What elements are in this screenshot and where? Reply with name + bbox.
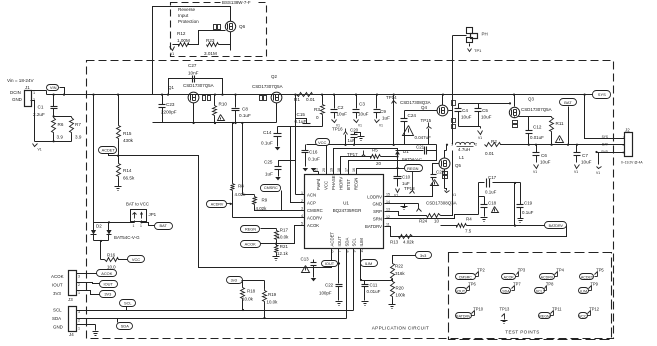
svg-text:ILIM: ILIM xyxy=(580,289,587,293)
svg-text:R7: R7 xyxy=(75,122,81,127)
svg-text:10uF: 10uF xyxy=(481,115,492,120)
svg-text:1: 1 xyxy=(78,291,80,295)
svg-text:ILIM: ILIM xyxy=(359,238,364,247)
svg-text:CMSRC: CMSRC xyxy=(307,208,323,213)
svg-text:0.01uF: 0.01uF xyxy=(530,135,544,140)
svg-text:10.0: 10.0 xyxy=(107,265,116,270)
svg-text:R4: R4 xyxy=(466,217,472,222)
svg-text:3: 3 xyxy=(78,310,80,314)
svg-text:TP3: TP3 xyxy=(518,268,526,273)
svg-text:C27: C27 xyxy=(188,63,197,68)
svg-text:SDA: SDA xyxy=(52,316,61,321)
svg-text:CSD17307Q5A: CSD17307Q5A xyxy=(183,83,214,88)
svg-text:V1: V1 xyxy=(478,136,482,140)
svg-text:10.0k: 10.0k xyxy=(278,235,290,240)
svg-text:0: 0 xyxy=(316,115,319,120)
svg-text:10nF: 10nF xyxy=(188,71,199,76)
svg-text:V1: V1 xyxy=(38,148,42,152)
svg-text:20: 20 xyxy=(376,161,381,166)
svg-text:Q2: Q2 xyxy=(271,74,277,79)
svg-text:TP9: TP9 xyxy=(590,282,598,287)
svg-text:CSD17307Q5A: CSD17307Q5A xyxy=(252,84,283,89)
svg-text:R6: R6 xyxy=(58,122,64,127)
svg-text:ACDRV: ACDRV xyxy=(541,276,554,280)
svg-text:3v3: 3v3 xyxy=(420,253,426,258)
svg-text:BAT: BAT xyxy=(564,100,572,105)
svg-text:2: 2 xyxy=(475,143,477,147)
svg-text:SYS: SYS xyxy=(602,135,608,139)
svg-text:R15: R15 xyxy=(123,131,132,136)
svg-text:GND: GND xyxy=(372,202,382,207)
svg-text:C17: C17 xyxy=(488,175,497,180)
svg-text:10uF: 10uF xyxy=(461,115,472,120)
svg-text:Q6: Q6 xyxy=(239,24,246,29)
svg-text:V1: V1 xyxy=(379,124,383,128)
svg-text:V1: V1 xyxy=(170,52,174,56)
svg-text:6: 6 xyxy=(330,251,334,253)
svg-text:0.1uF: 0.1uF xyxy=(485,190,497,195)
svg-text:R20: R20 xyxy=(396,286,405,291)
svg-text:0.1uF: 0.1uF xyxy=(239,113,251,118)
svg-text:R2: R2 xyxy=(491,139,497,144)
svg-text:C19: C19 xyxy=(524,201,533,206)
svg-text:100pF: 100pF xyxy=(319,291,332,296)
svg-text:Q1: Q1 xyxy=(168,85,174,90)
svg-text:0.01: 0.01 xyxy=(306,97,315,102)
svg-text:C14: C14 xyxy=(263,130,272,135)
svg-text:ILIM: ILIM xyxy=(365,261,373,266)
svg-text:4.02k: 4.02k xyxy=(256,206,268,211)
svg-text:TP10: TP10 xyxy=(473,307,484,312)
svg-text:VCC: VCC xyxy=(318,140,327,145)
svg-text:REGN: REGN xyxy=(245,228,256,232)
svg-text:U1: U1 xyxy=(343,201,349,206)
svg-text:12.1k: 12.1k xyxy=(277,251,289,256)
svg-text:TP12: TP12 xyxy=(589,307,600,312)
svg-text:3: 3 xyxy=(301,207,303,211)
svg-text:SDA: SDA xyxy=(502,289,510,293)
svg-text:ACP: ACP xyxy=(307,201,316,206)
svg-text:PH: PH xyxy=(482,32,488,37)
svg-text:20: 20 xyxy=(322,168,326,172)
svg-text:ACOK: ACOK xyxy=(101,271,112,276)
svg-text:C25: C25 xyxy=(264,160,273,165)
svg-text:R13: R13 xyxy=(390,240,399,245)
svg-text:IOUT: IOUT xyxy=(104,281,114,286)
svg-text:R18: R18 xyxy=(247,289,256,294)
svg-text:TP2: TP2 xyxy=(477,268,485,273)
svg-text:3.9: 3.9 xyxy=(75,135,82,140)
svg-text:10: 10 xyxy=(434,219,439,224)
svg-text:ACDET: ACDET xyxy=(581,276,594,280)
svg-text:TEST POINTS: TEST POINTS xyxy=(505,330,539,335)
svg-text:2.2uF: 2.2uF xyxy=(33,112,45,117)
svg-text:BAT: BAT xyxy=(602,143,608,147)
svg-text:1uF: 1uF xyxy=(265,172,273,177)
svg-text:D2: D2 xyxy=(96,224,102,229)
svg-text:1: 1 xyxy=(133,224,135,228)
svg-text:IOUT: IOUT xyxy=(337,236,342,247)
svg-text:C9: C9 xyxy=(380,109,386,114)
svg-text:0.01uF: 0.01uF xyxy=(367,289,381,294)
svg-text:BAT to VCC: BAT to VCC xyxy=(126,202,149,207)
svg-text:8: 8 xyxy=(345,251,349,253)
svg-text:V1: V1 xyxy=(596,171,600,175)
svg-text:VCC: VCC xyxy=(579,314,587,318)
svg-text:BATDRV: BATDRV xyxy=(456,314,471,318)
svg-text:TP17: TP17 xyxy=(347,152,358,157)
svg-text:TP15: TP15 xyxy=(421,118,432,123)
svg-text:4.7uH: 4.7uH xyxy=(458,147,470,152)
svg-text:BAT54-V-C: BAT54-V-C xyxy=(402,157,422,162)
svg-text:Vin = 18-24V: Vin = 18-24V xyxy=(7,78,35,83)
svg-text:10.0k: 10.0k xyxy=(242,297,254,302)
svg-text:0~19.2V @ 4A: 0~19.2V @ 4A xyxy=(621,161,643,165)
svg-text:0.1uF: 0.1uF xyxy=(261,141,273,146)
svg-text:SRN: SRN xyxy=(373,217,382,222)
svg-text:SCL: SCL xyxy=(536,289,543,293)
svg-text:10uF: 10uF xyxy=(540,160,551,165)
svg-text:C3: C3 xyxy=(359,102,365,107)
svg-text:ACOK: ACOK xyxy=(504,276,515,280)
svg-text:10uF: 10uF xyxy=(581,160,592,165)
svg-text:10uF: 10uF xyxy=(337,112,348,117)
svg-text:7.5: 7.5 xyxy=(465,229,472,234)
svg-text:66.5k: 66.5k xyxy=(123,176,135,181)
svg-text:10uF: 10uF xyxy=(358,112,369,117)
svg-text:R24: R24 xyxy=(419,219,428,224)
svg-text:J1: J1 xyxy=(25,85,30,90)
svg-text:ACN: ACN xyxy=(307,192,316,197)
svg-text:0.1uF: 0.1uF xyxy=(522,210,534,215)
svg-text:Input: Input xyxy=(178,13,189,18)
svg-text:C11: C11 xyxy=(370,282,378,287)
svg-text:R9: R9 xyxy=(262,198,268,203)
svg-text:R1: R1 xyxy=(294,97,300,102)
svg-text:16: 16 xyxy=(352,168,356,172)
svg-text:C4: C4 xyxy=(462,108,468,113)
svg-text:R22: R22 xyxy=(395,264,404,269)
svg-text:1: 1 xyxy=(140,224,142,228)
svg-text:TP1: TP1 xyxy=(474,48,482,53)
svg-text:C6: C6 xyxy=(541,153,547,158)
svg-text:IOUT: IOUT xyxy=(457,289,466,293)
svg-text:TP6: TP6 xyxy=(468,282,476,287)
svg-text:SCL: SCL xyxy=(53,308,62,313)
svg-text:9: 9 xyxy=(352,251,356,253)
svg-text:J3: J3 xyxy=(68,297,73,302)
svg-text:R10: R10 xyxy=(219,102,228,107)
svg-text:J2: J2 xyxy=(625,128,630,133)
svg-text:ACDRV: ACDRV xyxy=(307,216,322,221)
svg-text:C20: C20 xyxy=(350,128,359,133)
svg-text:3v3: 3v3 xyxy=(231,278,237,283)
svg-text:3: 3 xyxy=(78,275,80,279)
svg-text:316k: 316k xyxy=(395,271,405,276)
svg-text:BTST: BTST xyxy=(346,179,351,190)
svg-text:Q4: Q4 xyxy=(421,105,427,110)
svg-text:TP7: TP7 xyxy=(513,282,521,287)
svg-text:R11: R11 xyxy=(556,121,565,126)
svg-text:LODRV: LODRV xyxy=(367,194,382,199)
svg-text:TP8: TP8 xyxy=(546,282,554,287)
svg-text:1: 1 xyxy=(451,143,453,147)
svg-text:BQ24735RGR: BQ24735RGR xyxy=(333,208,362,213)
svg-text:SDA: SDA xyxy=(344,238,349,247)
svg-text:C26: C26 xyxy=(436,170,445,175)
svg-text:Q5: Q5 xyxy=(455,163,461,168)
svg-text:1: 1 xyxy=(33,91,35,95)
svg-text:2: 2 xyxy=(78,283,80,287)
svg-text:4.02k: 4.02k xyxy=(403,240,415,245)
svg-text:3.9: 3.9 xyxy=(57,135,64,140)
svg-text:TP11: TP11 xyxy=(552,307,562,312)
svg-text:SYS: SYS xyxy=(598,92,606,97)
svg-text:SCL: SCL xyxy=(124,300,132,305)
svg-text:1uF: 1uF xyxy=(382,116,390,121)
svg-text:ACOK: ACOK xyxy=(51,274,64,279)
svg-text:C10: C10 xyxy=(402,175,411,180)
svg-text:ACDRV: ACDRV xyxy=(211,203,224,207)
svg-text:R16: R16 xyxy=(107,253,116,258)
svg-text:APPLICATION CIRCUIT: APPLICATION CIRCUIT xyxy=(372,326,430,331)
svg-text:C8: C8 xyxy=(242,107,248,112)
svg-text:ACOK: ACOK xyxy=(307,223,319,228)
svg-text:Reverse: Reverse xyxy=(178,7,196,12)
svg-text:REGN: REGN xyxy=(354,178,359,190)
svg-text:CMSRC: CMSRC xyxy=(264,186,278,190)
svg-text:1.00M: 1.00M xyxy=(177,38,190,43)
svg-text:C16: C16 xyxy=(309,150,318,155)
svg-text:Protection: Protection xyxy=(178,19,199,24)
svg-text:C1: C1 xyxy=(38,105,44,110)
svg-text:SCL: SCL xyxy=(351,238,356,247)
svg-text:CSD17307Q5A: CSD17307Q5A xyxy=(521,107,552,112)
svg-text:J4: J4 xyxy=(69,332,74,337)
svg-text:Q3: Q3 xyxy=(528,97,534,102)
svg-text:V1: V1 xyxy=(533,170,537,174)
svg-text:TP13: TP13 xyxy=(500,307,511,312)
svg-text:1: 1 xyxy=(78,327,80,331)
svg-text:0.1uF: 0.1uF xyxy=(308,157,320,162)
svg-text:BAT54C-V-G: BAT54C-V-G xyxy=(114,235,140,240)
svg-text:PwPd: PwPd xyxy=(316,178,321,190)
svg-text:REGN: REGN xyxy=(407,166,418,171)
svg-text:BATDRV: BATDRV xyxy=(549,224,564,228)
svg-text:ACOK: ACOK xyxy=(245,241,256,246)
svg-text:IOUT: IOUT xyxy=(52,283,63,288)
svg-text:C2: C2 xyxy=(338,105,344,110)
svg-text:R21: R21 xyxy=(280,244,289,249)
svg-text:R8: R8 xyxy=(238,184,244,189)
svg-text:ACDET: ACDET xyxy=(329,232,334,247)
svg-text:BATDRV: BATDRV xyxy=(365,224,382,229)
svg-text:CMSRC: CMSRC xyxy=(459,276,473,280)
svg-text:C24: C24 xyxy=(408,113,417,118)
svg-text:L1: L1 xyxy=(459,155,465,160)
svg-text:VCC: VCC xyxy=(324,181,329,190)
svg-text:R5: R5 xyxy=(372,148,378,153)
svg-text:3V3: 3V3 xyxy=(53,291,61,296)
svg-text:3V3: 3V3 xyxy=(104,292,111,297)
svg-text:C5: C5 xyxy=(482,108,488,113)
svg-text:IOUT: IOUT xyxy=(325,261,335,266)
svg-text:VCC: VCC xyxy=(132,257,140,262)
svg-text:SRP: SRP xyxy=(373,209,382,214)
svg-text:GND: GND xyxy=(12,97,22,102)
svg-text:TP5: TP5 xyxy=(596,268,604,273)
svg-text:R19: R19 xyxy=(268,292,277,297)
svg-text:2200pF: 2200pF xyxy=(161,110,177,115)
svg-text:C22: C22 xyxy=(325,283,334,288)
svg-text:R17: R17 xyxy=(280,228,289,233)
svg-text:C7: C7 xyxy=(582,153,588,158)
svg-text:0.01: 0.01 xyxy=(485,151,494,156)
svg-text:2: 2 xyxy=(78,319,80,323)
svg-text:TP16: TP16 xyxy=(332,127,343,132)
svg-text:VIN: VIN xyxy=(50,85,57,90)
svg-text:C15: C15 xyxy=(297,112,306,117)
svg-text:BSS138W-7-F: BSS138W-7-F xyxy=(222,0,251,5)
svg-text:REGN: REGN xyxy=(539,314,550,318)
svg-text:C21: C21 xyxy=(416,145,425,150)
svg-text:11: 11 xyxy=(386,222,390,226)
svg-text:PHASE: PHASE xyxy=(331,175,336,190)
svg-text:C23: C23 xyxy=(166,102,175,107)
svg-text:C18: C18 xyxy=(488,201,497,206)
svg-text:JP1: JP1 xyxy=(149,212,157,217)
svg-text:100k: 100k xyxy=(396,293,406,298)
svg-text:R12: R12 xyxy=(177,31,186,36)
svg-text:C13: C13 xyxy=(301,257,310,262)
svg-text:V1: V1 xyxy=(574,170,578,174)
svg-text:3.01M: 3.01M xyxy=(204,51,217,56)
svg-text:10.0k: 10.0k xyxy=(267,300,279,305)
svg-text:TP14: TP14 xyxy=(386,95,397,100)
svg-text:ACDET: ACDET xyxy=(102,147,116,152)
svg-text:R3: R3 xyxy=(314,107,320,112)
svg-text:DCIN: DCIN xyxy=(10,90,21,95)
svg-text:SDA: SDA xyxy=(121,324,129,329)
svg-text:5: 5 xyxy=(301,222,303,226)
svg-text:R23: R23 xyxy=(206,38,215,43)
svg-text:C12: C12 xyxy=(533,125,542,130)
svg-text:V1: V1 xyxy=(358,124,362,128)
svg-text:HIDRV: HIDRV xyxy=(339,177,344,190)
svg-text:430k: 430k xyxy=(123,138,134,143)
svg-text:1uF: 1uF xyxy=(348,138,356,143)
svg-text:R14: R14 xyxy=(123,168,132,173)
svg-text:TP18: TP18 xyxy=(404,186,415,191)
svg-text:13: 13 xyxy=(386,208,390,212)
svg-text:GND: GND xyxy=(53,325,63,330)
svg-text:BAT: BAT xyxy=(160,223,168,228)
svg-text:TP4: TP4 xyxy=(556,268,564,273)
svg-text:D1: D1 xyxy=(403,149,409,154)
